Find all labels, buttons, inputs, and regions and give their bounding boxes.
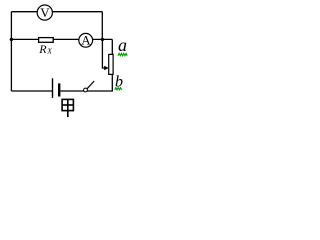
svg-text:V: V: [40, 5, 50, 20]
svg-text:X: X: [46, 47, 52, 56]
svg-text:A: A: [81, 33, 91, 48]
svg-text:a: a: [118, 35, 127, 55]
svg-text:R: R: [38, 42, 47, 56]
